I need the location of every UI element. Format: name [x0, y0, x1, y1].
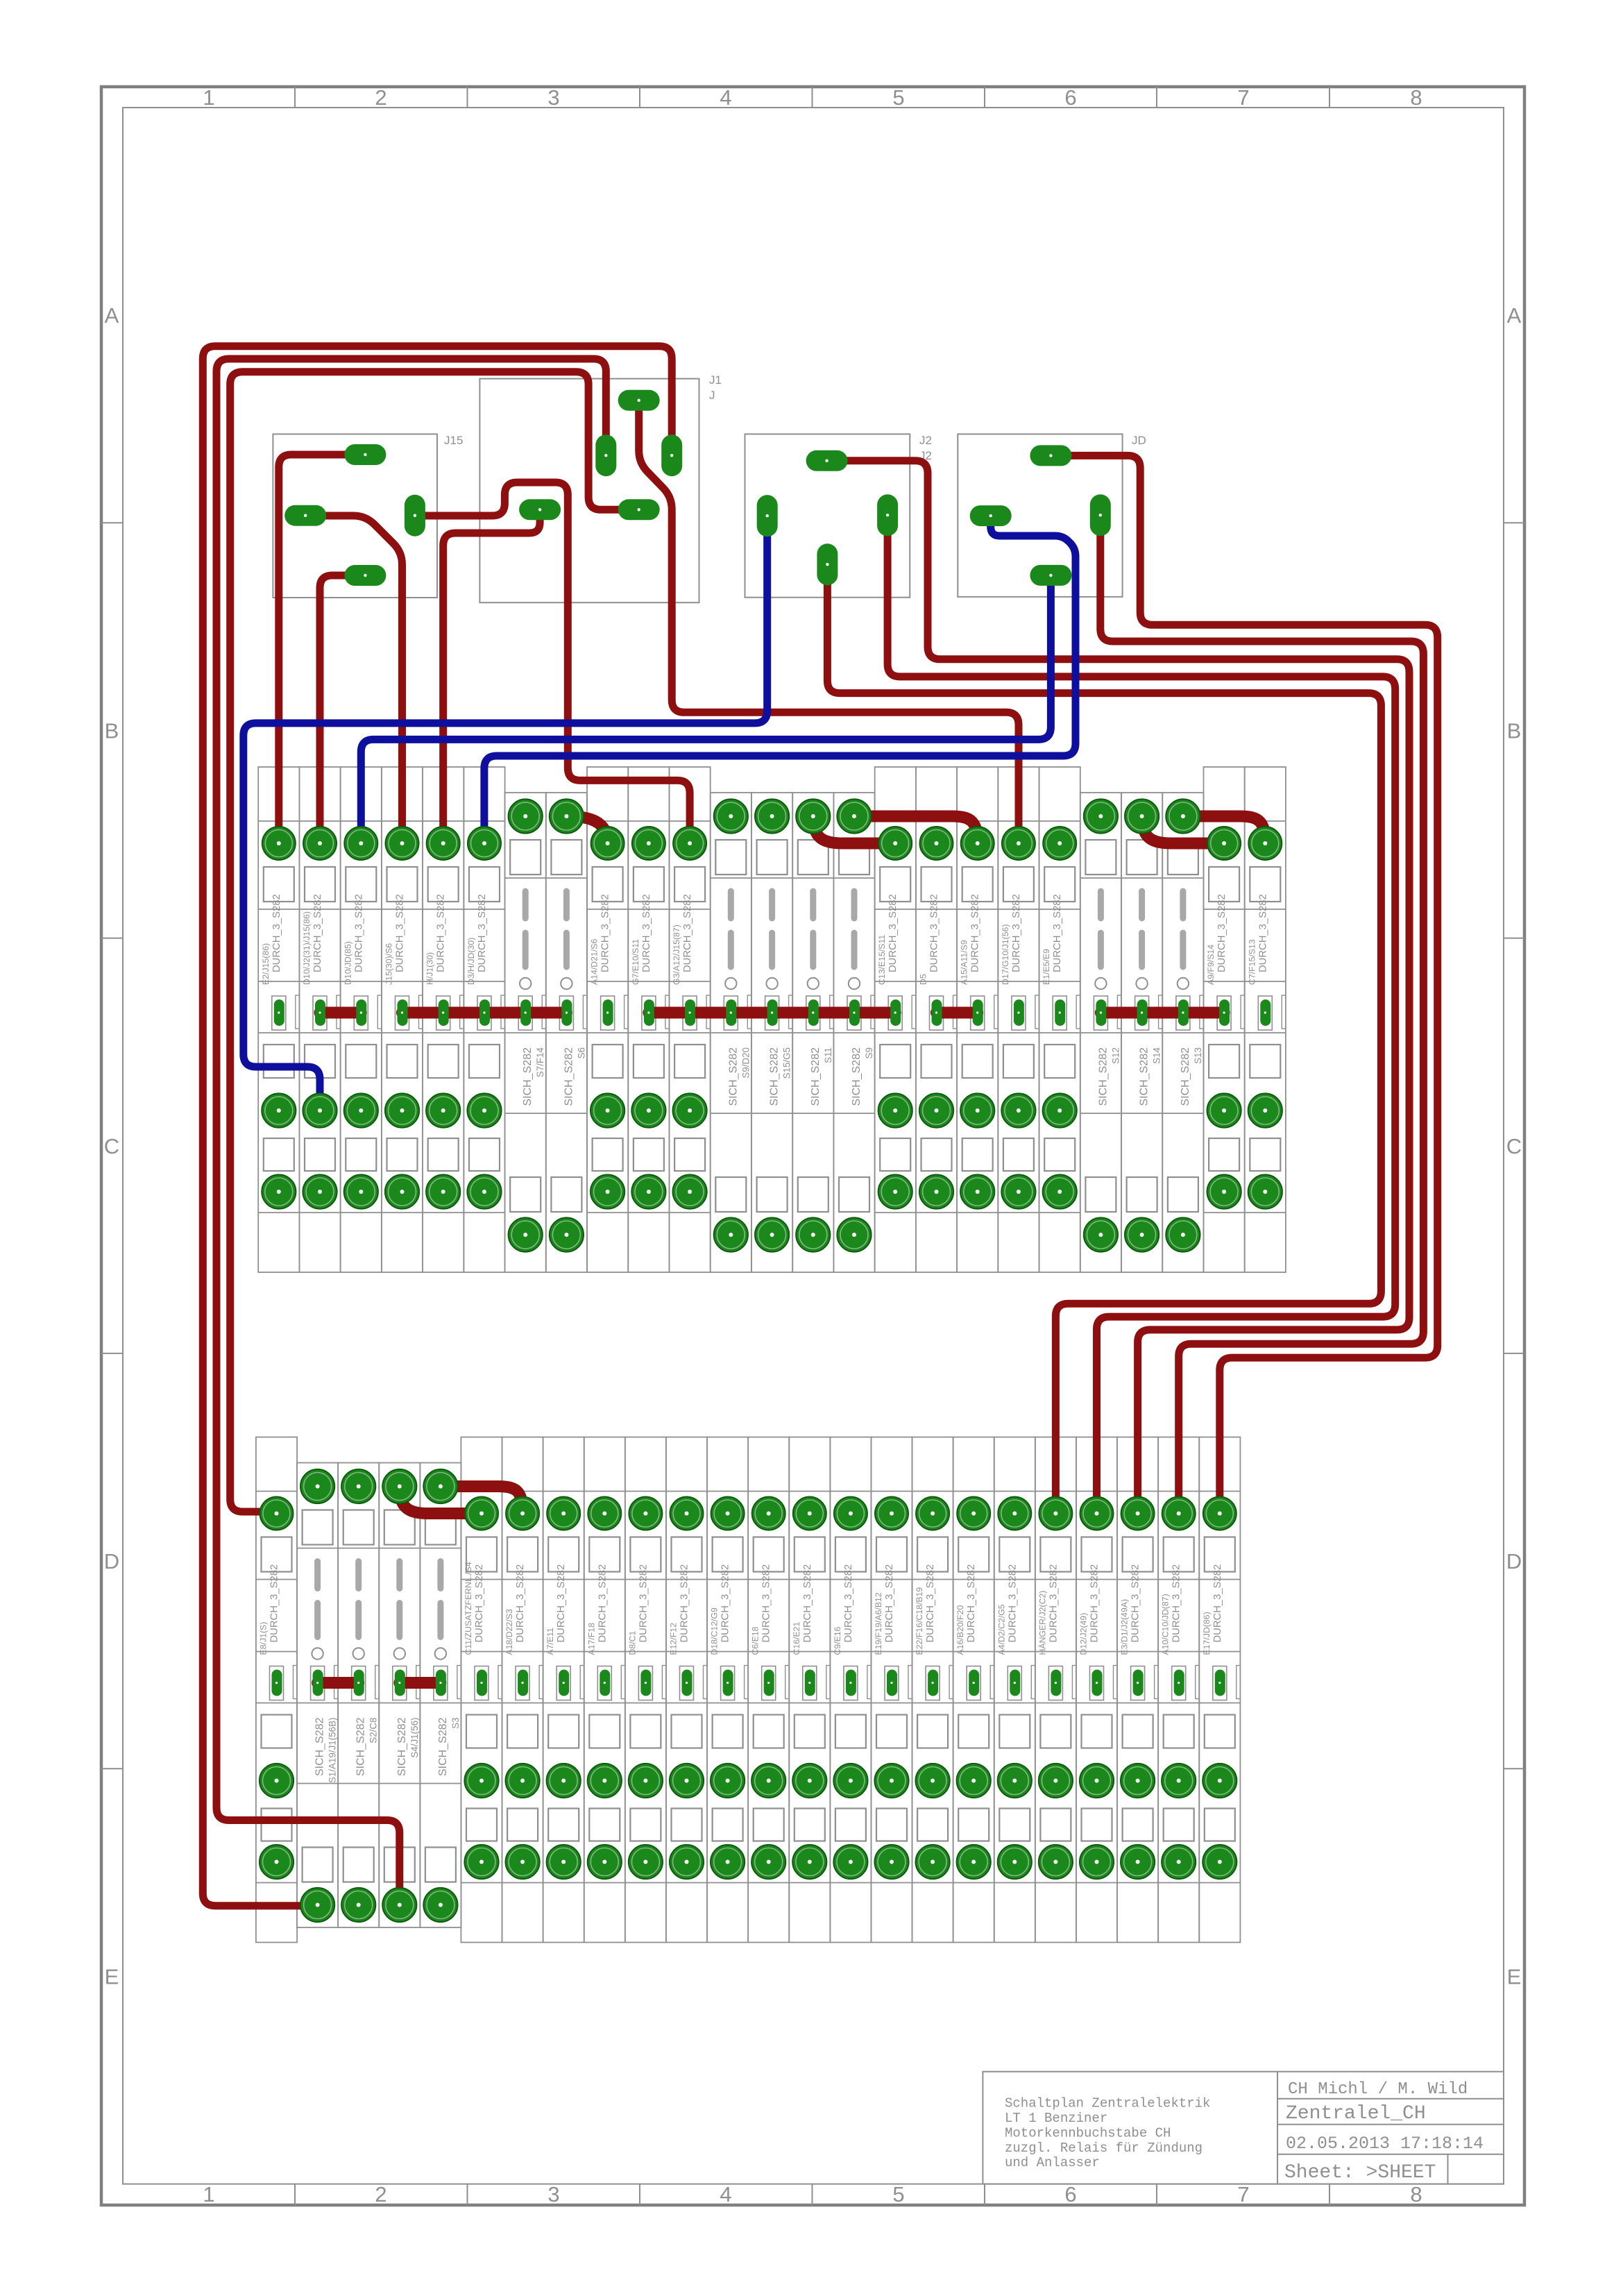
fuse terminal X1-13 S15/G5 body — [751, 793, 792, 1272]
svg-text:SICH_S282: SICH_S282 — [769, 1047, 781, 1106]
wire J15 pin3 to X1-11 (G3/A12/J15(87)) — [415, 482, 690, 843]
svg-text:7: 7 — [1237, 85, 1249, 110]
svg-text:A17/F18: A17/F18 — [586, 1623, 596, 1655]
wire bus X1-21..X1-24 — [1101, 1007, 1224, 1019]
svg-text:DURCH_3_S282: DURCH_3_S282 — [269, 1564, 280, 1643]
svg-text:A10/C10/JD(87): A10/C10/JD(87) — [1161, 1594, 1171, 1655]
terminal X1-2 D10/J2(31)/J15(86) pads — [303, 827, 337, 1209]
svg-text:DURCH_3_S282: DURCH_3_S282 — [679, 1564, 690, 1643]
svg-text:D17/G10/J1(56): D17/G10/J1(56) — [1001, 925, 1010, 986]
wire bus X1-17..X1-18 — [937, 1007, 978, 1019]
svg-text:H/J1(30): H/J1(30) — [425, 952, 435, 985]
fuse terminal X1-13 S15/G5 pads — [755, 799, 789, 1251]
svg-text:C: C — [104, 1134, 119, 1158]
fuse terminal X1-22 S14 body — [1121, 793, 1162, 1272]
terminal X2-8 A7/E11 pads — [547, 1497, 581, 1880]
pad J2.1 — [806, 450, 848, 471]
wire J15 pin1 to X1-1 (E2/J15) — [279, 455, 366, 843]
svg-text:DURCH_3_S282: DURCH_3_S282 — [271, 894, 282, 972]
svg-text:DURCH_3_S282: DURCH_3_S282 — [515, 1564, 526, 1643]
connector JD box — [958, 434, 1146, 597]
svg-text:E: E — [105, 1964, 119, 1989]
svg-text:D10/J2(31)/J15(86): D10/J2(31)/J15(86) — [302, 911, 312, 985]
fuse terminal X1-23 S13 body — [1162, 793, 1203, 1272]
title block text — [1005, 2080, 1484, 2184]
connector J15 box — [273, 434, 463, 598]
svg-text:A9/F9/S14: A9/F9/S14 — [1206, 945, 1216, 985]
terminal X2-20 HÄNGER/J2(C2) pads — [1039, 1497, 1073, 1880]
terminal X1-24 A9/F9/S14 pads — [1207, 827, 1241, 1209]
fuse terminal X1-21 S12 body — [1080, 793, 1121, 1272]
terminal X1-2 D10/J2(31)/J15(86) body — [299, 767, 340, 1272]
pad JD.3 — [1090, 494, 1111, 536]
terminal X1-25 C7/F15/S13 body — [1245, 767, 1286, 1272]
wire arc X2-4 to X2-6 — [400, 1487, 482, 1514]
svg-text:DURCH_3_S282: DURCH_3_S282 — [1007, 1564, 1018, 1643]
svg-text:B: B — [1507, 719, 1522, 743]
svg-text:8: 8 — [1410, 85, 1422, 110]
terminal X2-20 HÄNGER/J2(C2) body — [1035, 1437, 1076, 1943]
wire arc X1-15 to X1-18 — [854, 816, 978, 843]
svg-text:J15(30)/S6: J15(30)/S6 — [384, 943, 394, 985]
terminal X2-13 C6/E18 body — [748, 1437, 789, 1943]
terminal X1-25 C7/F15/S13 pads — [1248, 827, 1282, 1209]
svg-text:A: A — [1507, 303, 1522, 328]
pad J1.5 — [519, 499, 561, 520]
terminal X2-21 D12/J2(49) pads — [1080, 1497, 1114, 1880]
svg-text:2: 2 — [375, 2182, 386, 2206]
terminal X2-19 A4/D2/C2/G5 pads — [998, 1497, 1032, 1880]
wire arc X2-5 to X2-7 — [441, 1487, 522, 1514]
terminal X1-5 H/J1(30) pads — [426, 827, 460, 1209]
terminal X1-16 C13/E15/S11 body — [875, 767, 916, 1272]
pad JD.1 — [1030, 445, 1071, 466]
terminal X1-17 D5 body — [916, 767, 957, 1272]
svg-text:DURCH_3_S282: DURCH_3_S282 — [600, 894, 611, 972]
svg-text:DURCH_3_S282: DURCH_3_S282 — [474, 1564, 485, 1643]
terminal X2-19 A4/D2/C2/G5 body — [994, 1437, 1035, 1943]
wire J2 pin3 to X2-21 (D12/J2(49)) — [887, 515, 1395, 1513]
svg-text:SICH_S282: SICH_S282 — [1097, 1047, 1109, 1106]
wire J1 pin2 to X2-4 (S4/J1(56)) — [216, 359, 606, 1905]
terminal X1-4 J15(30)/S6 body — [382, 767, 423, 1272]
svg-text:SICH_S282: SICH_S282 — [314, 1717, 326, 1776]
svg-text:SICH_S282: SICH_S282 — [1139, 1047, 1150, 1106]
terminal X1-3 D10/JD(85) body — [341, 767, 382, 1272]
svg-text:5: 5 — [892, 85, 904, 110]
svg-text:CH Michl / M. Wild: CH Michl / M. Wild — [1288, 2080, 1468, 2099]
terminal X2-7 A18/D22/S3 pads — [506, 1497, 540, 1880]
svg-text:E19/F19/A6/B12: E19/F19/A6/B12 — [874, 1592, 883, 1655]
svg-text:S12: S12 — [1110, 1047, 1121, 1064]
svg-text:S11: S11 — [823, 1047, 833, 1063]
svg-text:2: 2 — [375, 85, 386, 110]
svg-text:SICH_S282: SICH_S282 — [437, 1717, 449, 1776]
fuse terminal X1-22 S14 pads — [1125, 799, 1159, 1251]
fuse terminal X1-15 S9 body — [833, 793, 874, 1272]
terminal X2-9 A17/F18 pads — [588, 1497, 622, 1880]
fuse terminal X1-21 S12 pads — [1084, 799, 1118, 1251]
svg-text:DURCH_3_S282: DURCH_3_S282 — [477, 894, 488, 972]
fuse terminal X1-8 S6 body — [546, 793, 587, 1272]
svg-text:DURCH_3_S282: DURCH_3_S282 — [887, 894, 899, 972]
fuse terminal X1-12 S9/D20 pads — [714, 799, 748, 1251]
svg-text:S13: S13 — [1193, 1047, 1203, 1064]
fuse terminal X1-14 S11 body — [792, 793, 833, 1272]
terminal X1-6 D3/H/JD(30) pads — [467, 827, 501, 1209]
svg-text:S7/F14: S7/F14 — [535, 1047, 545, 1077]
wire arc X1-22 to X1-24 — [1142, 816, 1225, 843]
svg-text:S9/D20: S9/D20 — [740, 1047, 751, 1079]
frame inner border — [123, 108, 1504, 2184]
fuse terminal X2-3 S2/C8 pads — [341, 1469, 375, 1922]
wire JD pin3 to X2-23 (A10/C10/JD(87)) — [1101, 515, 1424, 1513]
svg-text:02.05.2013 17:18:14: 02.05.2013 17:18:14 — [1286, 2134, 1484, 2154]
pad J1.1 — [618, 390, 660, 411]
svg-text:DURCH_3_S282: DURCH_3_S282 — [1048, 1564, 1059, 1643]
wire bus X1-4..X1-8 — [402, 1007, 567, 1019]
terminal X2-17 E22/F16/C18/B19 pads — [916, 1497, 950, 1880]
fuse terminal X1-8 S6 pads — [550, 799, 584, 1251]
svg-text:A14/D21/S6: A14/D21/S6 — [590, 939, 600, 985]
connector J1 box — [479, 373, 722, 602]
terminal X1-9 A14/D21/S6 body — [587, 767, 628, 1272]
terminal X2-18 A16/B20/F20 pads — [957, 1497, 991, 1880]
svg-text:S9: S9 — [864, 1047, 874, 1058]
fuse terminal X2-4 S4/J1(56) pads — [382, 1469, 416, 1922]
svg-text:und Anlasser: und Anlasser — [1005, 2155, 1100, 2170]
svg-text:D: D — [1506, 1549, 1522, 1573]
svg-text:SICH_S282: SICH_S282 — [522, 1047, 534, 1106]
svg-text:D3/H/JD(30): D3/H/JD(30) — [466, 938, 476, 985]
svg-text:S2/C8: S2/C8 — [368, 1718, 379, 1744]
terminal X1-24 A9/F9/S14 body — [1204, 767, 1245, 1272]
svg-text:S3: S3 — [450, 1718, 461, 1729]
fuse terminal X1-23 S13 pads — [1166, 799, 1200, 1251]
svg-text:J15: J15 — [444, 434, 463, 447]
pad J15.3 — [405, 495, 425, 537]
svg-text:A7/E11: A7/E11 — [545, 1628, 555, 1655]
svg-text:DURCH_3_S282: DURCH_3_S282 — [925, 1564, 936, 1643]
svg-text:A15/A11/S9: A15/A11/S9 — [960, 940, 969, 985]
svg-text:DURCH_3_S282: DURCH_3_S282 — [556, 1564, 567, 1643]
fuse terminal X1-7 S7/F14 body — [505, 793, 546, 1272]
svg-text:DURCH_3_S282: DURCH_3_S282 — [1089, 1564, 1101, 1643]
terminal X2-10 D8/C1 pads — [629, 1497, 663, 1880]
svg-text:E: E — [1507, 1964, 1522, 1989]
terminal X1-11 G3/A12/J15(87) body — [670, 767, 711, 1272]
pad J1.3 — [661, 434, 682, 476]
svg-text:DURCH_3_S282: DURCH_3_S282 — [682, 894, 693, 972]
svg-text:DURCH_3_S282: DURCH_3_S282 — [597, 1564, 608, 1643]
svg-text:E17/JD(86): E17/JD(86) — [1202, 1612, 1212, 1655]
terminal X2-14 C16/E21 body — [789, 1437, 830, 1943]
svg-text:DURCH_3_S282: DURCH_3_S282 — [761, 1564, 772, 1643]
fuse terminal X2-4 S4/J1(56) body — [379, 1463, 420, 1928]
pad J2.3 — [877, 494, 898, 536]
terminal X2-11 E12/F12 body — [666, 1437, 707, 1943]
terminal X1-18 A15/A11/S9 body — [957, 767, 998, 1272]
svg-text:HÄNGER/J2(C2): HÄNGER/J2(C2) — [1037, 1591, 1047, 1655]
pad J15.4 — [344, 565, 386, 586]
svg-text:C11/ZUSATZFERNL./S4: C11/ZUSATZFERNL./S4 — [464, 1562, 473, 1655]
svg-text:Schaltplan Zentralelektrik: Schaltplan Zentralelektrik — [1005, 2096, 1210, 2111]
svg-text:SICH_S282: SICH_S282 — [563, 1047, 575, 1106]
terminal X2-10 D8/C1 body — [625, 1437, 666, 1943]
pad J2.2 — [757, 495, 778, 537]
svg-text:DURCH_3_S282: DURCH_3_S282 — [966, 1564, 977, 1643]
svg-text:B: B — [105, 719, 119, 743]
fuse terminal X1-15 S9 pads — [837, 799, 871, 1251]
svg-text:5: 5 — [892, 2182, 904, 2206]
svg-text:C9/E16: C9/E16 — [833, 1626, 842, 1655]
svg-text:LT 1 Benziner: LT 1 Benziner — [1005, 2111, 1107, 2126]
terminal X2-12 D18/C12/G9 pads — [711, 1497, 745, 1880]
pad JD.4 — [1030, 565, 1071, 586]
wire J2 pin4 to X2-20 (HAENGER/J2(C2)) — [827, 564, 1381, 1513]
pad J15.2 — [284, 505, 326, 526]
terminal X2-15 C9/E16 body — [830, 1437, 871, 1943]
svg-text:D12/J2(49): D12/J2(49) — [1079, 1613, 1089, 1655]
svg-text:E12/F12: E12/F12 — [669, 1623, 679, 1655]
svg-text:SICH_S282: SICH_S282 — [810, 1047, 822, 1106]
svg-text:E2/J15(86): E2/J15(86) — [261, 943, 271, 985]
svg-text:Zentralel_CH: Zentralel_CH — [1286, 2103, 1426, 2125]
svg-text:4: 4 — [720, 85, 731, 110]
svg-text:SICH_S282: SICH_S282 — [355, 1717, 367, 1776]
svg-text:DURCH_3_S282: DURCH_3_S282 — [1212, 1564, 1223, 1643]
svg-text:Motorkennbuchstabe CH: Motorkennbuchstabe CH — [1005, 2125, 1171, 2141]
svg-text:DURCH_3_S282: DURCH_3_S282 — [312, 894, 323, 972]
svg-text:DURCH_3_S282: DURCH_3_S282 — [1011, 894, 1022, 972]
wire J1 pin4 to X2-1 (E8/J1(S)) — [230, 372, 639, 1512]
terminal X1-11 G3/A12/J15(87) pads — [673, 827, 707, 1209]
terminal X1-5 H/J1(30) body — [423, 767, 464, 1272]
svg-text:SICH_S282: SICH_S282 — [851, 1047, 863, 1106]
terminal X1-17 D5 pads — [919, 827, 953, 1209]
terminal X2-16 E19/F19/A6/B12 body — [871, 1437, 912, 1943]
svg-text:Sheet: >SHEET: Sheet: >SHEET — [1284, 2162, 1436, 2184]
svg-text:6: 6 — [1064, 85, 1076, 110]
connector J2 box — [745, 434, 932, 598]
terminal X1-10 G7/E10/S11 pads — [631, 827, 665, 1209]
svg-text:D8/C1: D8/C1 — [627, 1630, 637, 1655]
svg-text:S14: S14 — [1152, 1047, 1162, 1063]
svg-text:A4/D2/C2/G5: A4/D2/C2/G5 — [996, 1604, 1006, 1655]
svg-text:C16/E21: C16/E21 — [792, 1621, 801, 1655]
svg-text:C6/E18: C6/E18 — [751, 1626, 760, 1655]
svg-text:DURCH_3_S282: DURCH_3_S282 — [970, 894, 981, 972]
svg-text:1: 1 — [203, 2182, 214, 2206]
svg-text:S6: S6 — [576, 1047, 586, 1058]
svg-text:D5: D5 — [919, 974, 928, 985]
wire bus X2-2..X2-3 — [318, 1677, 359, 1689]
pad J15.1 — [344, 444, 386, 465]
pad JD.2 — [970, 505, 1012, 526]
pad J1.2 — [595, 434, 616, 476]
svg-text:3: 3 — [547, 2182, 559, 2206]
wire arc X1-14 to X1-16 — [813, 816, 895, 843]
terminal X1-4 J15(30)/S6 pads — [385, 827, 419, 1209]
terminal X2-23 A10/C10/JD(87) pads — [1162, 1497, 1196, 1880]
wire JD pin4 to X1-3 (D10/JD(85)) (blue) — [361, 575, 1051, 843]
terminal X2-1 E8/J1(S) pads — [260, 1497, 294, 1880]
svg-text:SICH_S282: SICH_S282 — [1180, 1047, 1191, 1106]
svg-text:8: 8 — [1410, 2182, 1422, 2206]
terminal X2-23 A10/C10/JD(87) body — [1158, 1437, 1199, 1943]
svg-text:SICH_S282: SICH_S282 — [727, 1047, 739, 1106]
svg-text:JD: JD — [1132, 434, 1146, 447]
svg-text:J: J — [709, 389, 715, 402]
terminal X2-24 E17/JD(86) body — [1199, 1437, 1240, 1943]
terminal X2-8 A7/E11 body — [543, 1437, 584, 1943]
terminal X2-15 C9/E16 pads — [833, 1497, 867, 1880]
terminal X2-21 D12/J2(49) body — [1076, 1437, 1117, 1943]
terminal X1-1 E2/J15(86) body — [258, 767, 299, 1272]
svg-text:DURCH_3_S282: DURCH_3_S282 — [436, 894, 447, 972]
svg-text:DURCH_3_S282: DURCH_3_S282 — [353, 894, 364, 972]
svg-text:A: A — [105, 303, 119, 328]
svg-text:J2: J2 — [919, 434, 932, 447]
wire bus X2-4..X2-5 — [400, 1677, 441, 1689]
fuse terminal X1-7 S7/F14 pads — [509, 799, 543, 1251]
terminal X2-14 C16/E21 pads — [792, 1497, 826, 1880]
terminal X2-18 A16/B20/F20 body — [953, 1437, 994, 1943]
wire J1 pin3 to X2-2 (S1/A19/J1(56B)) — [203, 346, 672, 1906]
wire J15 pin4 to X1-2 (D10/J2/J15) — [320, 575, 365, 843]
svg-text:DURCH_3_S282: DURCH_3_S282 — [884, 1564, 895, 1643]
fuse terminal X2-2 S1/A19/J1(56B) pads — [300, 1469, 334, 1922]
wire JD pin2 to X1-6 (D3/H/JD(30)) (blue) — [484, 516, 1076, 843]
wire arc X1-23 to X1-25 — [1183, 816, 1265, 843]
svg-text:E3/D1/J2(49A): E3/D1/J2(49A) — [1120, 1599, 1130, 1655]
fuse terminal X2-2 S1/A19/J1(56B) body — [297, 1463, 338, 1928]
wire JD pin1 to X2-24 (E17/JD(86)) — [1051, 455, 1437, 1513]
svg-text:DURCH_3_S282: DURCH_3_S282 — [1130, 1564, 1141, 1643]
svg-text:G3/A12/J15(87): G3/A12/J15(87) — [672, 925, 681, 985]
svg-text:DURCH_3_S282: DURCH_3_S282 — [395, 894, 406, 972]
wire bus X1-2..X1-3 — [320, 1007, 361, 1019]
svg-text:DURCH_3_S282: DURCH_3_S282 — [641, 894, 652, 972]
wire J1 pin1 to X1-19 (D17/G10/J1(56)) — [639, 400, 1019, 843]
fuse terminal X2-3 S2/C8 body — [338, 1463, 379, 1928]
wire arc X1-8 to X1-9 — [566, 816, 607, 843]
svg-text:7: 7 — [1237, 2182, 1249, 2206]
svg-text:C13/E15/S11: C13/E15/S11 — [877, 935, 887, 985]
svg-text:E22/F16/C18/B19: E22/F16/C18/B19 — [915, 1587, 924, 1655]
wire J1 pin5 to X1-5 (H/J1(30)) — [443, 509, 540, 843]
svg-text:DURCH_3_S282: DURCH_3_S282 — [802, 1564, 813, 1643]
terminal X1-19 D17/G10/J1(56) pads — [1001, 827, 1035, 1209]
wire J2 pin1 to X2-22 (E3/D1/J2(49A)) — [827, 461, 1409, 1514]
wire bus X1-10..X1-16 — [649, 1007, 895, 1019]
svg-text:DURCH_3_S282: DURCH_3_S282 — [1257, 894, 1268, 972]
svg-text:A16/B20/F20: A16/B20/F20 — [955, 1605, 965, 1655]
svg-text:DURCH_3_S282: DURCH_3_S282 — [1052, 894, 1063, 972]
svg-text:3: 3 — [547, 85, 559, 110]
svg-text:D10/JD(85): D10/JD(85) — [343, 941, 352, 985]
terminal X2-22 E3/D1/J2(49A) pads — [1121, 1497, 1155, 1880]
terminal X2-24 E17/JD(86) pads — [1203, 1497, 1237, 1880]
title block — [983, 2072, 1504, 2184]
terminal X2-12 D18/C12/G9 body — [707, 1437, 748, 1943]
svg-text:S4/J1(56): S4/J1(56) — [409, 1718, 420, 1758]
terminal X2-1 E8/J1(S) body — [256, 1437, 297, 1943]
svg-text:zuzgl. Relais für Zündung: zuzgl. Relais für Zündung — [1005, 2141, 1203, 2156]
terminal X1-9 A14/D21/S6 pads — [590, 827, 624, 1209]
terminal X2-17 E22/F16/C18/B19 body — [912, 1437, 953, 1943]
svg-text:DURCH_3_S282: DURCH_3_S282 — [638, 1564, 649, 1643]
fuse terminal X1-14 S11 pads — [796, 799, 830, 1251]
terminal X1-10 G7/E10/S11 body — [628, 767, 669, 1272]
terminal X2-6 C11/ZUSATZFERNL./S4 body — [461, 1437, 502, 1943]
fuse terminal X2-5 S3 pads — [423, 1469, 457, 1922]
terminal X1-6 D3/H/JD(30) body — [464, 767, 504, 1272]
terminal X1-18 A15/A11/S9 pads — [960, 827, 994, 1209]
svg-text:4: 4 — [720, 2182, 731, 2206]
svg-text:D18/C12/G9: D18/C12/G9 — [710, 1607, 720, 1655]
svg-text:J1: J1 — [709, 373, 722, 387]
svg-text:S15/G5: S15/G5 — [782, 1047, 792, 1079]
svg-text:E8/J1(S): E8/J1(S) — [259, 1622, 269, 1655]
terminal X2-7 A18/D22/S3 body — [502, 1437, 543, 1943]
terminal X2-16 E19/F19/A6/B12 pads — [874, 1497, 908, 1880]
svg-text:A18/D22/S3: A18/D22/S3 — [504, 1609, 514, 1655]
svg-text:6: 6 — [1064, 2182, 1076, 2206]
wire J15 pin2 to X1-4 (J15(30)/S6) — [305, 516, 402, 843]
terminal X1-3 D10/JD(85) pads — [344, 827, 378, 1209]
fuse terminal X2-5 S3 body — [420, 1463, 461, 1928]
pad J2.4 — [817, 543, 838, 585]
svg-text:D: D — [104, 1549, 119, 1573]
svg-text:DURCH_3_S282: DURCH_3_S282 — [720, 1564, 731, 1643]
terminal X2-6 C11/ZUSATZFERNL./S4 pads — [464, 1497, 498, 1880]
terminal X2-13 C6/E18 pads — [751, 1497, 785, 1880]
svg-text:S1/A19/J1(56B): S1/A19/J1(56B) — [328, 1718, 338, 1784]
terminal X1-20 E1/E5/E9 body — [1039, 767, 1080, 1272]
svg-text:G7/E10/S11: G7/E10/S11 — [631, 939, 640, 985]
svg-text:C7/F15/S13: C7/F15/S13 — [1247, 939, 1257, 985]
svg-text:DURCH_3_S282: DURCH_3_S282 — [929, 894, 940, 972]
svg-text:DURCH_3_S282: DURCH_3_S282 — [1216, 894, 1227, 972]
svg-text:E1/E5/E9: E1/E5/E9 — [1042, 949, 1051, 985]
terminal X1-16 C13/E15/S11 pads — [878, 827, 912, 1209]
fuse terminal X1-12 S9/D20 body — [711, 793, 751, 1272]
svg-text:1: 1 — [203, 85, 214, 110]
terminal X1-19 D17/G10/J1(56) body — [998, 767, 1039, 1272]
terminal X2-22 E3/D1/J2(49A) body — [1117, 1437, 1158, 1943]
wire J2 pin2 to X1-2 middle (blue) — [244, 516, 767, 1111]
svg-text:DURCH_3_S282: DURCH_3_S282 — [1171, 1564, 1182, 1643]
terminal X1-20 E1/E5/E9 pads — [1043, 827, 1077, 1209]
svg-text:DURCH_3_S282: DURCH_3_S282 — [843, 1564, 854, 1643]
svg-text:SICH_S282: SICH_S282 — [396, 1717, 408, 1776]
terminal X2-11 E12/F12 pads — [670, 1497, 704, 1880]
terminal X1-1 E2/J15(86) pads — [262, 827, 296, 1209]
terminal X2-9 A17/F18 body — [584, 1437, 625, 1943]
pad J1.4 — [618, 499, 660, 520]
svg-text:C: C — [1506, 1134, 1522, 1158]
